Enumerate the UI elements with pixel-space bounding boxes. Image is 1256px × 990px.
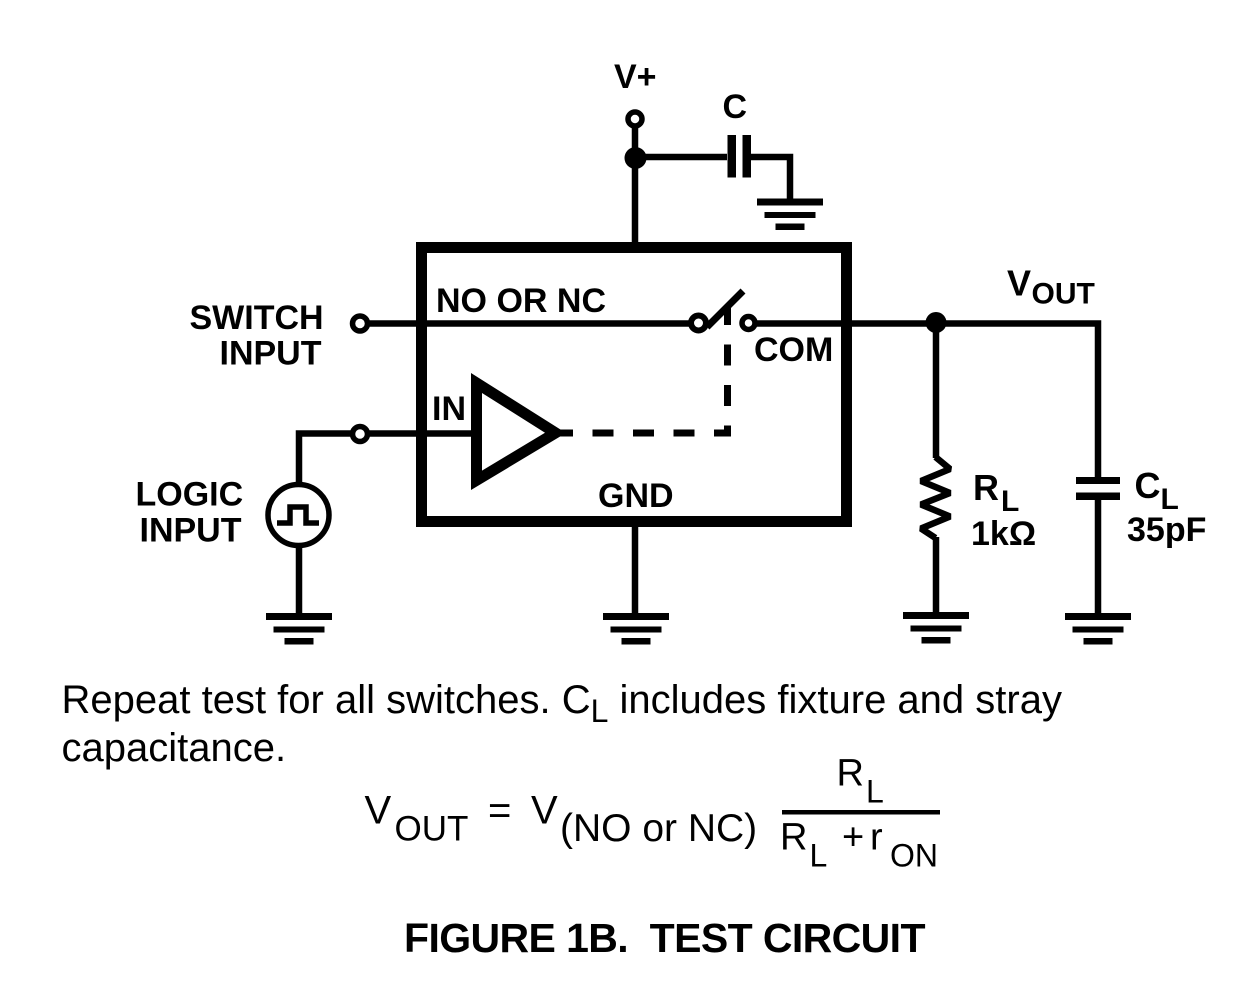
ground (bypass capacitor): [757, 199, 823, 231]
svg-text:=: =: [488, 789, 511, 833]
pulse source V1 (circle): [268, 485, 329, 546]
svg-text:V: V: [531, 789, 558, 833]
formula fraction bar: [782, 810, 940, 815]
svg-text:INPUT: INPUT: [140, 512, 242, 550]
svg-text:L: L: [1001, 485, 1019, 518]
svg-text:IN: IN: [432, 390, 466, 428]
svg-text:ON: ON: [890, 838, 938, 874]
svg-text:GND: GND: [598, 477, 674, 515]
svg-text:R: R: [780, 817, 807, 859]
resistor RL zigzag: [921, 457, 950, 538]
IC box U1: [422, 248, 847, 522]
svg-text:R: R: [973, 467, 999, 508]
wire capacitor CL to ground: [1095, 500, 1102, 614]
svg-text:NO OR NC: NO OR NC: [436, 282, 606, 320]
svg-text:R: R: [837, 753, 864, 795]
svg-text:FIGURE 1B. TEST CIRCUIT: FIGURE 1B. TEST CIRCUIT: [404, 915, 925, 961]
wire pulse source to logic terminal: [299, 434, 351, 486]
resistor RL designator: [973, 467, 1019, 518]
wire V+ stem down to box: [632, 128, 639, 250]
svg-text:OUT: OUT: [395, 810, 469, 849]
ground (pulse source): [266, 613, 332, 645]
svg-text:r: r: [870, 817, 883, 859]
svg-text:LOGIC: LOGIC: [136, 476, 244, 514]
capacitor CL plates: [1076, 477, 1120, 500]
node LOGIC INPUT label: [136, 476, 244, 550]
wire GND pin to ground: [632, 522, 639, 614]
buffer driver triangle: [471, 373, 566, 490]
svg-text:INPUT: INPUT: [220, 335, 322, 373]
svg-text:C: C: [723, 88, 748, 126]
svg-text:COM: COM: [754, 331, 833, 369]
terminal V+ (open circle): [628, 112, 642, 126]
capacitor C plates: [728, 135, 752, 178]
wire capacitor C to ground: [751, 157, 790, 200]
svg-text:capacitance.: capacitance.: [62, 726, 287, 770]
formula fraction denominator RL + rON: [780, 817, 938, 874]
wire COM to output node: [756, 324, 1098, 478]
junction dot at V+ rail: [625, 147, 647, 169]
svg-text:1kΩ: 1kΩ: [971, 515, 1036, 553]
wire pulse source to ground: [296, 546, 303, 614]
wire output node to resistor RL: [933, 323, 940, 458]
terminal switch input (open circle): [353, 316, 368, 331]
ground (resistor RL): [903, 612, 969, 644]
formula VOUT = V(NO or NC): [365, 789, 758, 851]
pulse source V1 waveform: [277, 507, 319, 523]
svg-text:+: +: [842, 817, 864, 859]
ground (capacitor CL): [1065, 613, 1131, 645]
svg-text:V: V: [365, 789, 392, 833]
svg-text:L: L: [810, 838, 828, 874]
wire junction to capacitor C: [635, 154, 727, 161]
switch S1 lever: [707, 291, 743, 327]
svg-text:Repeat test for all switches.: Repeat test for all switches. CL include…: [62, 678, 1062, 729]
wire resistor RL to ground: [933, 537, 940, 614]
dashed control line from driver to switch: [552, 305, 728, 433]
svg-text:V+: V+: [614, 58, 657, 96]
svg-text:C: C: [1135, 465, 1161, 506]
svg-text:L: L: [866, 774, 884, 810]
svg-text:35pF: 35pF: [1127, 511, 1206, 549]
svg-text:V: V: [1007, 263, 1031, 304]
capacitor CL designator: [1135, 465, 1179, 516]
junction dot output node: [926, 312, 947, 333]
ground (GND pin): [603, 613, 669, 645]
wire switch input to switch pole: [369, 320, 690, 327]
switch S1 throw contact (open circle): [742, 317, 755, 330]
node VOUT label: [1007, 263, 1095, 311]
wire logic input to IN pin: [369, 430, 476, 437]
node SWITCH INPUT label: [190, 299, 324, 373]
terminal logic input (open circle): [353, 427, 368, 442]
svg-text:OUT: OUT: [1032, 278, 1095, 311]
svg-text:(NO or NC): (NO or NC): [560, 807, 757, 850]
svg-text:SWITCH: SWITCH: [190, 299, 324, 337]
switch S1 pole contact (open circle): [691, 316, 706, 331]
formula fraction numerator RL: [837, 753, 884, 810]
